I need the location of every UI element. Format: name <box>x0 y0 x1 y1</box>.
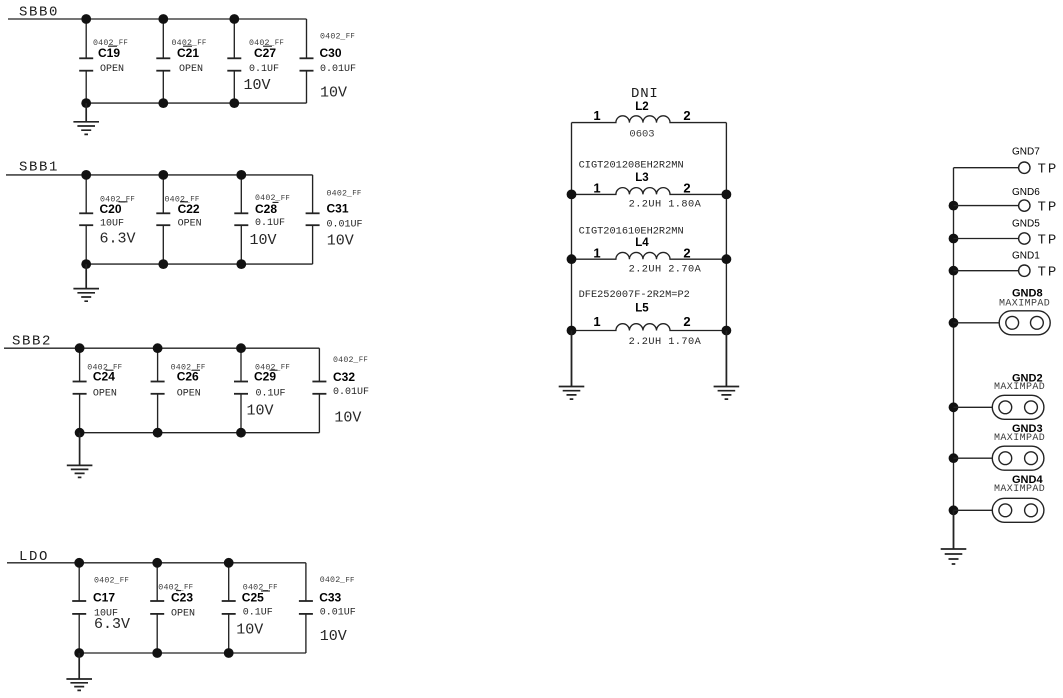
capacitor C17 <box>72 563 86 653</box>
svg-text:0402: 0402 <box>320 576 341 585</box>
svg-text:C25: C25 <box>242 591 264 605</box>
svg-text:L5: L5 <box>635 302 649 314</box>
junction GND1 <box>949 266 959 276</box>
capacitor C30 <box>300 19 314 103</box>
junction GND5 <box>949 234 959 244</box>
junction GND8 <box>949 318 959 328</box>
label C24 footprint 0402_FF <box>87 363 122 372</box>
wire GND2 <box>954 406 993 408</box>
capacitor C25 <box>222 563 236 653</box>
svg-text:TP: TP <box>1038 265 1059 281</box>
svg-text:6.3V: 6.3V <box>100 231 136 248</box>
designator C32 <box>333 370 355 384</box>
svg-text:10V: 10V <box>327 232 354 249</box>
svg-text:_: _ <box>346 189 352 198</box>
svg-text:1: 1 <box>593 181 600 196</box>
junction SBB0 bottom 2 <box>158 98 168 108</box>
designator C30 <box>320 46 342 60</box>
svg-text:0.01UF: 0.01UF <box>320 608 356 619</box>
capacitor C20 <box>79 175 93 264</box>
junction SBB1 top 1 <box>81 170 91 180</box>
svg-text:C22: C22 <box>178 202 200 216</box>
value label C31 10V <box>327 232 354 249</box>
junction LDO top 3 <box>224 558 234 568</box>
designator C28 <box>255 202 279 216</box>
value label L3 2.2UH 1.80A <box>629 199 702 211</box>
designator C19 <box>98 46 120 60</box>
svg-text:2.2UH 1.70A: 2.2UH 1.70A <box>629 336 702 348</box>
pin 2 label L2 <box>683 108 690 123</box>
value label C27 10V <box>244 77 271 94</box>
svg-text:_: _ <box>339 576 345 585</box>
value label C28 10V <box>250 232 277 249</box>
ground SBB0 <box>73 103 99 134</box>
net label GND4 <box>1012 474 1043 486</box>
junction SBB1 bottom 2 <box>158 259 168 269</box>
value label C32 0.01UF <box>333 387 369 398</box>
svg-text:10V: 10V <box>247 403 274 420</box>
label C31 footprint 0402_FF <box>327 189 362 198</box>
capacitor C26 <box>151 348 165 433</box>
part number DFE252007F-2R2M=P2 (L5) <box>579 289 690 301</box>
label MAXIMPAD (GND8) <box>999 298 1050 309</box>
ground (right GND rail) <box>941 510 967 564</box>
capacitor C19 <box>79 19 93 103</box>
pin 1 label L4 <box>593 245 600 260</box>
part number CIGT201610EH2R2MN (L4) <box>579 225 684 237</box>
ground LDO <box>66 653 92 690</box>
svg-text:_: _ <box>339 33 345 42</box>
ground (inductor bank left) <box>559 331 585 400</box>
label C32 footprint 0402_FF <box>333 356 368 365</box>
label C26 footprint 0402_FF <box>171 363 206 372</box>
svg-text:OPEN: OPEN <box>179 64 203 75</box>
pin 1 label L2 <box>593 108 600 123</box>
svg-text:DNI: DNI <box>631 86 659 102</box>
svg-text:GND6: GND6 <box>1012 187 1040 198</box>
label C19 footprint 0402_FF <box>93 39 128 48</box>
junction SBB2 bottom 1 <box>75 428 85 438</box>
capacitor C32 <box>312 348 326 433</box>
svg-text:2: 2 <box>683 108 690 123</box>
svg-text:FF: FF <box>120 577 129 585</box>
junction SBB2 bottom 2 <box>153 428 163 438</box>
value label C28 0.1UF <box>255 218 285 229</box>
capacitor C29 <box>234 348 248 433</box>
value label C30 0.01UF <box>320 64 356 75</box>
label MAXIMPAD (GND2) <box>994 382 1045 393</box>
junction LDO top 1 <box>74 558 84 568</box>
net label GND6 <box>1012 187 1040 198</box>
pad GND8 MAXIMPAD <box>999 311 1050 335</box>
svg-text:C30: C30 <box>320 46 342 60</box>
pad GND2 MAXIMPAD <box>992 395 1044 419</box>
inductor L3 <box>572 188 727 195</box>
svg-text:MAXIMPAD: MAXIMPAD <box>999 298 1050 309</box>
junction SBB0 top 3 <box>229 14 239 24</box>
designator C29 <box>254 370 278 384</box>
label DNI <box>631 86 659 102</box>
svg-text:FF: FF <box>126 196 135 204</box>
inductor L5 <box>572 324 727 331</box>
wire SBB1 bottom rail <box>86 263 312 265</box>
svg-text:C31: C31 <box>327 201 349 215</box>
label MAXIMPAD (GND3) <box>994 433 1045 444</box>
svg-text:0402: 0402 <box>94 577 115 586</box>
label C27 footprint 0402_FF <box>249 39 284 48</box>
capacitor C23 <box>150 563 164 653</box>
junction L5 left <box>567 326 577 336</box>
junction SBB0 top 1 <box>81 14 91 24</box>
value label C17 10UF <box>94 609 118 620</box>
pin 1 label L5 <box>593 314 600 329</box>
svg-text:C20: C20 <box>100 202 122 216</box>
label TP (GND7) <box>1038 162 1059 178</box>
test point GND7 <box>1019 162 1030 173</box>
junction GND4 <box>949 505 959 515</box>
svg-text:C24: C24 <box>93 370 115 384</box>
svg-text:C27: C27 <box>254 46 276 60</box>
designator C17 <box>93 591 115 605</box>
ground (inductor bank right) <box>714 331 740 400</box>
designator C23 <box>171 591 193 605</box>
label C23 footprint 0402_FF <box>158 583 193 592</box>
wire SBB2 bottom rail <box>80 432 320 434</box>
junction SBB0 top 2 <box>158 14 168 24</box>
value label C29 0.1UF <box>256 388 286 399</box>
wire left rail (inductor bank) <box>571 123 573 387</box>
svg-text:_: _ <box>113 577 119 586</box>
svg-text:C29: C29 <box>254 370 276 384</box>
designator C25 <box>242 591 270 605</box>
pad GND3 MAXIMPAD <box>992 446 1044 470</box>
pin 1 label L3 <box>593 181 600 196</box>
value label L5 2.2UH 1.70A <box>629 336 702 348</box>
wire LDO bottom rail <box>79 652 306 654</box>
capacitor C21 <box>156 19 170 103</box>
svg-text:SBB1: SBB1 <box>19 160 59 176</box>
value label C29 10V <box>247 403 274 420</box>
net label GND1 <box>1012 250 1040 261</box>
net label GND7 <box>1012 146 1040 157</box>
capacitor C24 <box>73 348 87 433</box>
svg-text:FF: FF <box>346 33 355 41</box>
designator C21 <box>177 46 199 60</box>
svg-text:SBB2: SBB2 <box>12 334 52 350</box>
value label C33 10V <box>320 628 347 645</box>
svg-text:C23: C23 <box>171 591 193 605</box>
junction LDO bottom 1 <box>74 648 84 658</box>
svg-text:GND1: GND1 <box>1012 250 1040 261</box>
svg-text:1: 1 <box>593 314 600 329</box>
junction SBB1 bottom 3 <box>236 259 246 269</box>
value label C17 6.3V <box>94 616 130 633</box>
junction L3 left <box>567 190 577 200</box>
label TP (GND6) <box>1038 200 1059 216</box>
value label C30 10V <box>320 85 347 102</box>
designator L2 <box>635 101 648 113</box>
svg-text:0.1UF: 0.1UF <box>249 64 279 75</box>
svg-text:10V: 10V <box>236 622 263 639</box>
wire SBB2 top rail <box>4 347 319 349</box>
svg-text:C32: C32 <box>333 370 355 384</box>
svg-text:2: 2 <box>683 245 690 260</box>
net label SBB0 <box>19 5 59 21</box>
net label SBB1 <box>19 160 59 176</box>
label C25 footprint 0402_FF <box>243 583 278 592</box>
svg-text:1: 1 <box>593 245 600 260</box>
svg-text:0.01UF: 0.01UF <box>327 219 363 230</box>
capacitor C27 <box>227 19 241 103</box>
junction SBB2 top 2 <box>153 343 163 353</box>
net label GND2 <box>1012 372 1043 384</box>
wire SBB0 bottom rail <box>86 102 306 104</box>
value label C25 10V <box>236 622 263 639</box>
value label C22 OPEN <box>178 218 202 229</box>
svg-text:10V: 10V <box>334 410 361 427</box>
junction L4 right <box>722 254 732 264</box>
svg-text:SBB0: SBB0 <box>19 5 59 21</box>
designator C24 <box>93 370 115 384</box>
svg-text:DFE252007F-2R2M=P2: DFE252007F-2R2M=P2 <box>579 289 690 301</box>
svg-text:FF: FF <box>352 190 361 198</box>
label C17 footprint 0402_FF <box>94 577 129 586</box>
label TP (GND5) <box>1038 232 1059 248</box>
svg-text:MAXIMPAD: MAXIMPAD <box>994 382 1045 393</box>
svg-text:2: 2 <box>683 181 690 196</box>
junction SBB2 top 3 <box>236 343 246 353</box>
svg-text:C19: C19 <box>98 46 120 60</box>
junction L5 right <box>722 326 732 336</box>
value label C32 10V <box>334 410 361 427</box>
svg-text:L4: L4 <box>635 237 649 249</box>
value label C21 OPEN <box>179 64 203 75</box>
junction GND2 <box>949 402 959 412</box>
wire GND6 <box>954 205 1019 207</box>
designator C20 <box>100 202 128 216</box>
pin 2 label L3 <box>683 181 690 196</box>
value label C33 0.01UF <box>320 608 356 619</box>
svg-text:10V: 10V <box>250 232 277 249</box>
svg-text:TP: TP <box>1038 162 1059 178</box>
junction SBB1 bottom 1 <box>81 259 91 269</box>
svg-text:0402: 0402 <box>333 356 354 365</box>
designator C27 <box>254 46 276 60</box>
wire right rail (inductor bank) <box>725 123 727 387</box>
designator C22 <box>178 202 200 216</box>
label C21 footprint 0402_FF <box>172 39 207 48</box>
wire SBB1 top rail <box>6 174 313 176</box>
junction GND3 <box>949 453 959 463</box>
junction L4 left <box>567 254 577 264</box>
junction SBB0 bottom 1 <box>81 98 91 108</box>
value label C20 10UF <box>100 218 124 229</box>
wire LDO top rail <box>7 562 306 564</box>
svg-text:OPEN: OPEN <box>93 388 117 399</box>
footprint label 0603 (L2) <box>629 128 654 140</box>
svg-text:10V: 10V <box>320 85 347 102</box>
junction SBB2 top 1 <box>75 343 85 353</box>
svg-text:6.3V: 6.3V <box>94 616 130 633</box>
junction LDO bottom 3 <box>224 648 234 658</box>
value label C27 0.1UF <box>249 64 279 75</box>
svg-text:OPEN: OPEN <box>100 64 124 75</box>
part number CIGT201208EH2R2MN (L3) <box>579 160 684 172</box>
wire GND5 <box>954 238 1019 240</box>
svg-text:0402: 0402 <box>320 33 341 42</box>
designator C33 <box>319 591 341 605</box>
svg-text:OPEN: OPEN <box>177 388 201 399</box>
svg-text:MAXIMPAD: MAXIMPAD <box>994 433 1045 444</box>
svg-text:FF: FF <box>281 195 290 203</box>
wire SBB0 top rail <box>8 18 307 20</box>
svg-text:L3: L3 <box>635 172 648 184</box>
capacitor C22 <box>156 175 170 264</box>
junction SBB0 bottom 3 <box>229 98 239 108</box>
label C22 footprint 0402_FF <box>165 196 200 205</box>
wire GND4 <box>954 509 993 511</box>
label C28 footprint 0402_FF <box>255 194 290 203</box>
ground SBB2 <box>67 433 93 478</box>
svg-text:MAXIMPAD: MAXIMPAD <box>994 484 1045 495</box>
designator L5 <box>635 302 649 314</box>
capacitor C33 <box>299 563 313 653</box>
pad GND4 MAXIMPAD <box>992 498 1044 522</box>
pin 2 label L5 <box>683 314 690 329</box>
svg-text:_: _ <box>352 356 358 365</box>
value label C24 OPEN <box>93 388 117 399</box>
value label L4 2.2UH 2.70A <box>629 264 702 276</box>
designator L4 <box>635 237 649 249</box>
svg-text:GND5: GND5 <box>1012 218 1040 229</box>
svg-text:0.1UF: 0.1UF <box>243 608 273 619</box>
value label C31 0.01UF <box>327 219 363 230</box>
svg-text:0.1UF: 0.1UF <box>256 388 286 399</box>
value label C25 0.1UF <box>243 608 273 619</box>
svg-text:GND7: GND7 <box>1012 146 1040 157</box>
svg-text:FF: FF <box>119 40 128 48</box>
designator C31 <box>327 201 349 215</box>
value label C26 OPEN <box>177 388 201 399</box>
svg-text:CIGT201208EH2R2MN: CIGT201208EH2R2MN <box>579 160 684 172</box>
wire GND1 <box>954 270 1019 272</box>
junction SBB2 bottom 3 <box>236 428 246 438</box>
capacitor C28 <box>234 175 248 264</box>
svg-text:OPEN: OPEN <box>171 609 195 620</box>
ground SBB1 <box>73 264 99 301</box>
label MAXIMPAD (GND4) <box>994 484 1045 495</box>
test point GND5 <box>1019 233 1030 244</box>
net label GND3 <box>1012 423 1043 435</box>
value label C19 OPEN <box>100 64 124 75</box>
svg-text:TP: TP <box>1038 232 1059 248</box>
net label GND8 <box>1012 287 1043 299</box>
svg-text:2.2UH 1.80A: 2.2UH 1.80A <box>629 199 702 211</box>
junction GND6 <box>949 201 959 211</box>
svg-text:C21: C21 <box>177 46 199 60</box>
svg-text:1: 1 <box>593 108 600 123</box>
svg-text:CIGT201610EH2R2MN: CIGT201610EH2R2MN <box>579 225 684 237</box>
svg-text:0.1UF: 0.1UF <box>255 218 285 229</box>
wire GND8 <box>954 322 1000 324</box>
designator L3 <box>635 172 648 184</box>
svg-text:0603: 0603 <box>629 128 654 140</box>
svg-text:C33: C33 <box>319 591 341 605</box>
wire GND3 <box>954 457 993 459</box>
capacitor C31 <box>306 175 320 264</box>
junction SBB1 top 3 <box>236 170 246 180</box>
svg-text:2: 2 <box>683 314 690 329</box>
svg-text:FF: FF <box>275 40 284 48</box>
inductor L4 <box>572 252 727 259</box>
net label GND5 <box>1012 218 1040 229</box>
label C33 footprint 0402_FF <box>320 576 355 585</box>
pin 2 label L4 <box>683 245 690 260</box>
test point GND1 <box>1019 265 1030 276</box>
junction SBB1 top 2 <box>158 170 168 180</box>
test point GND6 <box>1019 200 1030 211</box>
svg-text:FF: FF <box>281 364 290 372</box>
svg-text:FF: FF <box>345 577 354 585</box>
net label SBB2 <box>12 334 52 350</box>
svg-text:10V: 10V <box>320 628 347 645</box>
svg-text:FF: FF <box>359 356 368 364</box>
svg-text:L2: L2 <box>635 101 648 113</box>
inductor L2 <box>572 116 727 123</box>
junction L3 right <box>722 190 732 200</box>
svg-text:C26: C26 <box>177 370 199 384</box>
label C30 footprint 0402_FF <box>320 33 355 42</box>
svg-text:0.01UF: 0.01UF <box>333 387 369 398</box>
label C29 footprint 0402_FF <box>255 363 290 372</box>
net label LDO <box>19 549 49 565</box>
junction LDO bottom 2 <box>152 648 162 658</box>
label TP (GND1) <box>1038 265 1059 281</box>
svg-text:C28: C28 <box>255 202 277 216</box>
svg-text:0.01UF: 0.01UF <box>320 64 356 75</box>
svg-text:10V: 10V <box>244 77 271 94</box>
value label C20 6.3V <box>100 231 136 248</box>
wire GND rail (right) <box>953 168 955 549</box>
designator C26 <box>177 370 200 384</box>
svg-text:C17: C17 <box>93 591 115 605</box>
svg-text:2.2UH 2.70A: 2.2UH 2.70A <box>629 264 702 276</box>
label C20 footprint 0402_FF <box>100 196 135 205</box>
wire GND7 <box>954 167 1019 169</box>
svg-text:10UF: 10UF <box>100 218 124 229</box>
junction LDO top 2 <box>152 558 162 568</box>
svg-text:0402: 0402 <box>327 189 348 198</box>
value label C23 OPEN <box>171 609 195 620</box>
svg-text:TP: TP <box>1038 200 1059 216</box>
svg-text:OPEN: OPEN <box>178 218 202 229</box>
